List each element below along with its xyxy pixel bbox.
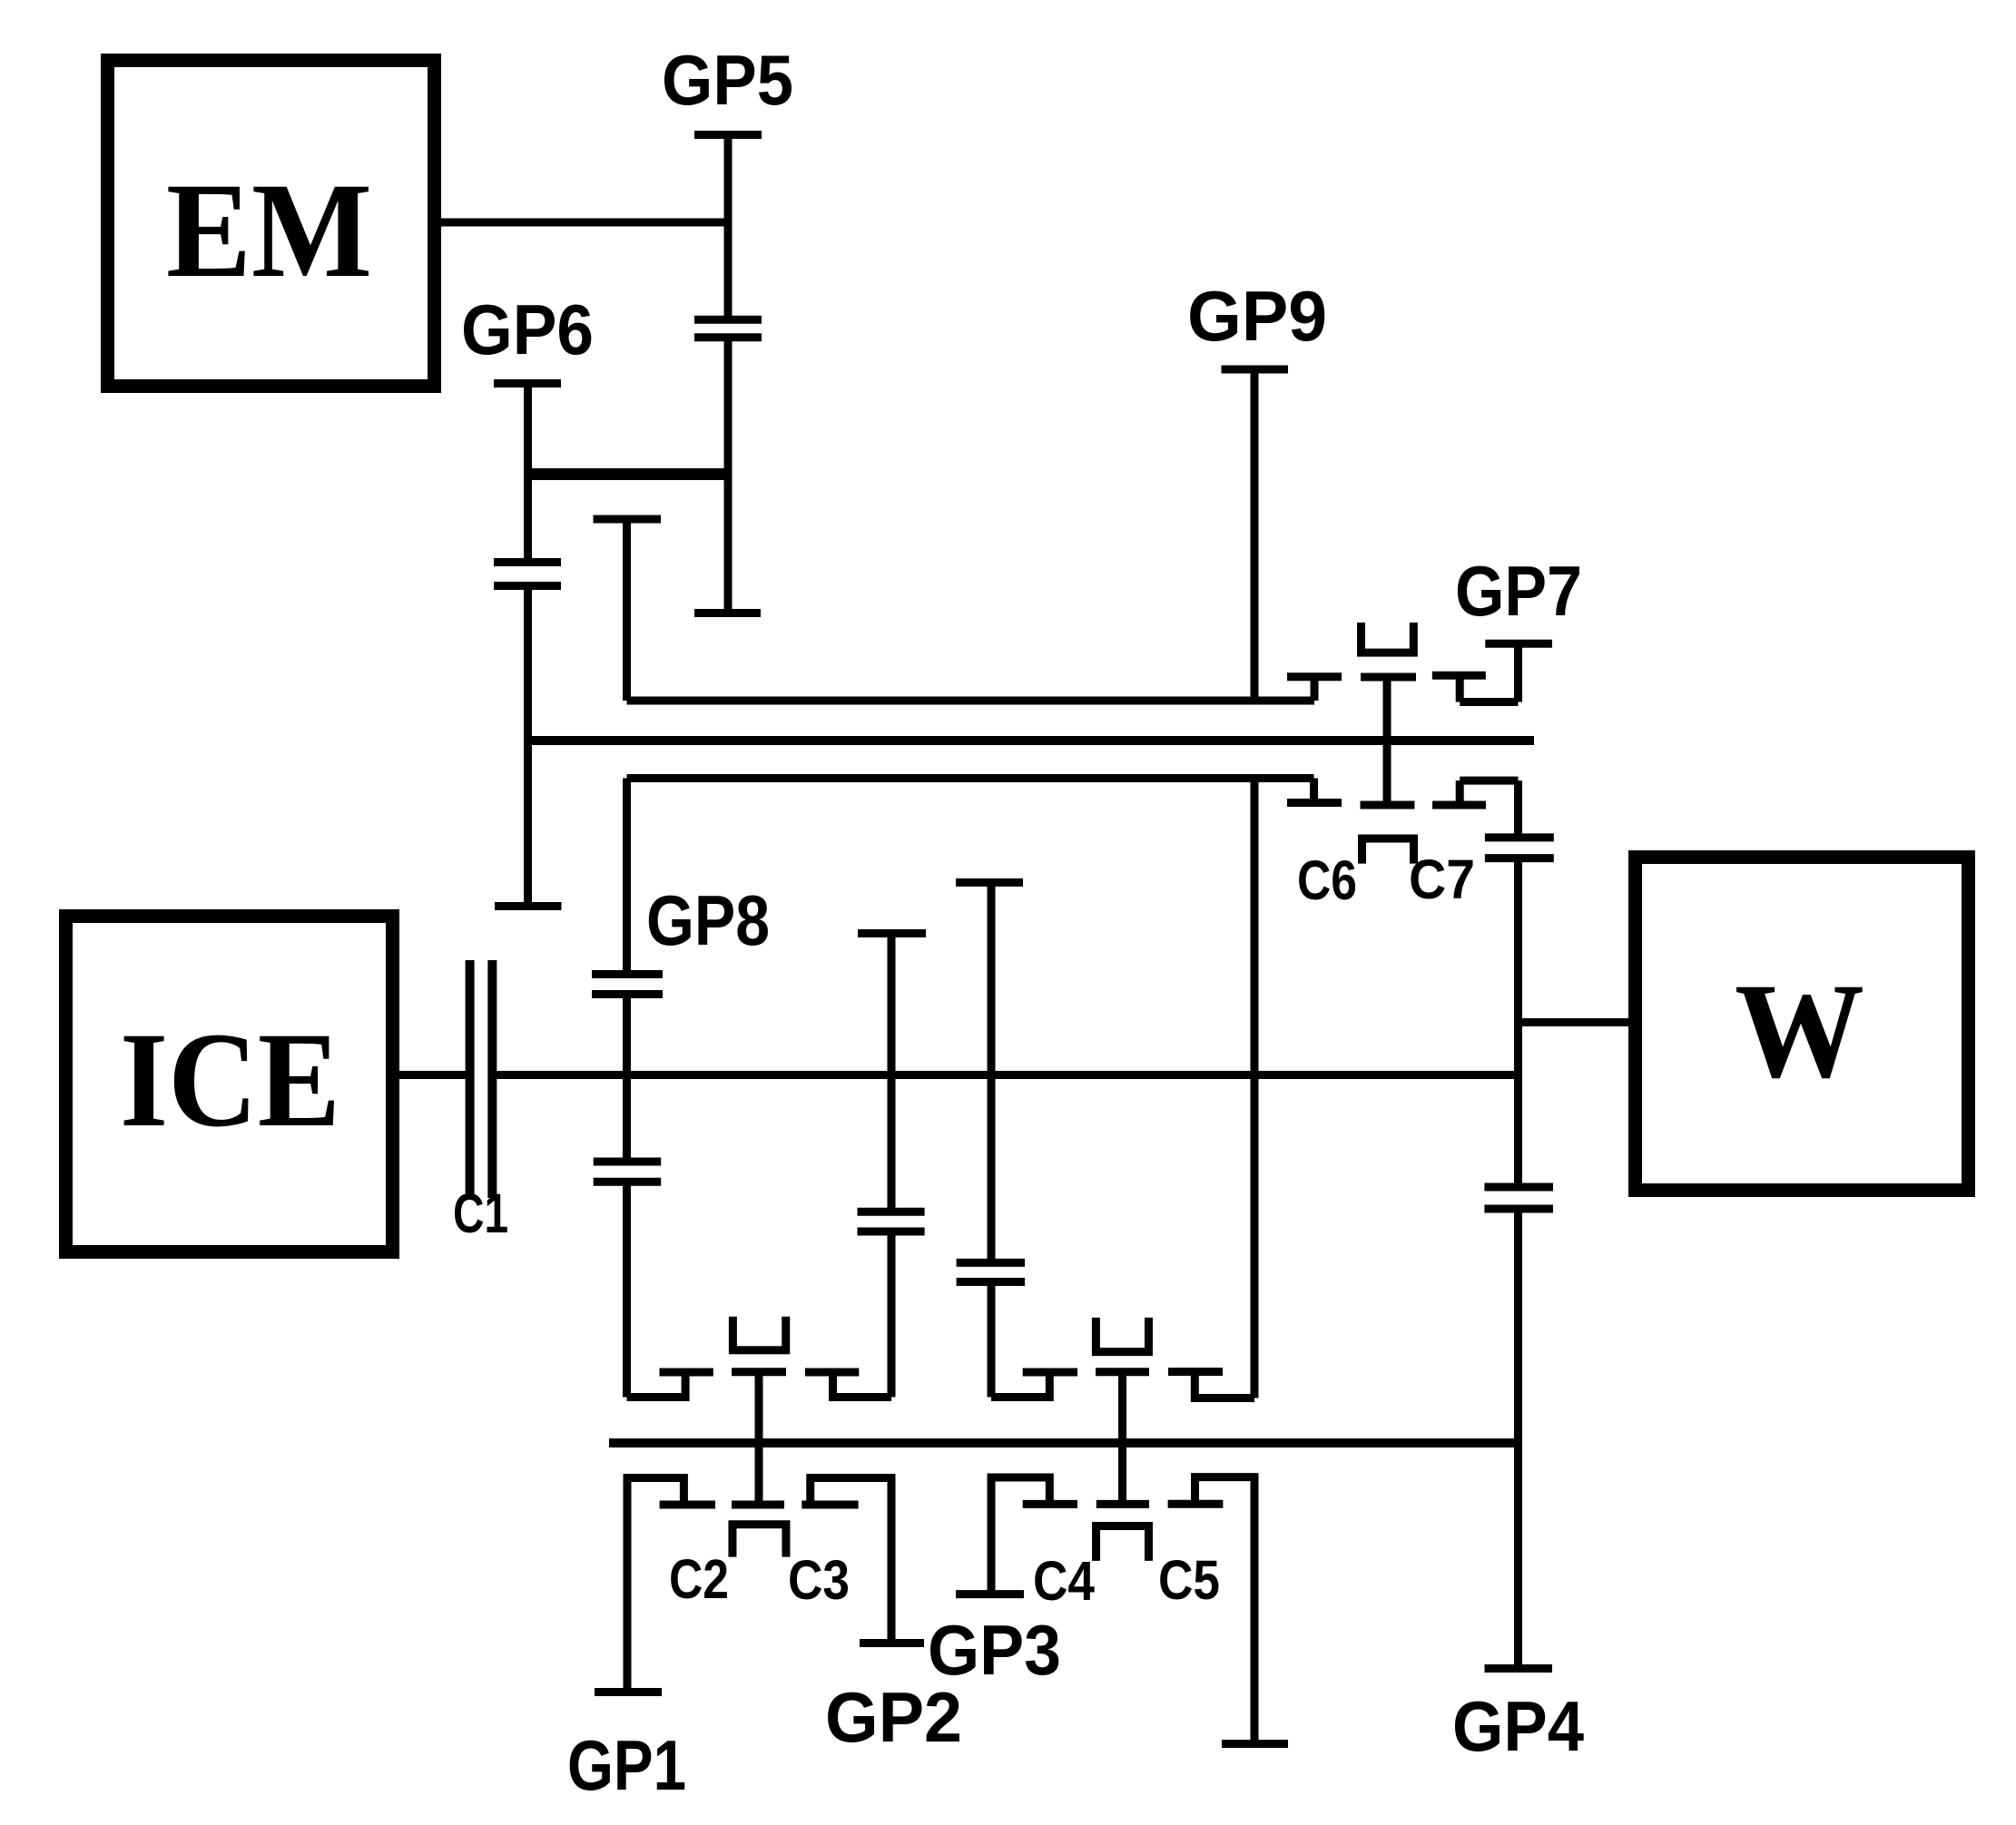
gear pair GP5 gear on EM shaft bbox=[694, 135, 762, 613]
EM box (electric motor) bbox=[108, 61, 435, 387]
svg-text:GP3: GP3 bbox=[928, 1610, 1061, 1690]
clutch C2 left claw (upper) bbox=[627, 1372, 713, 1398]
gear column x1092 with top cap and GP3 mesh bbox=[956, 882, 1025, 1397]
wire ICE output shaft left of clutch C1 bbox=[399, 1071, 466, 1079]
svg-text:C3: C3 bbox=[788, 1549, 850, 1611]
gear pair GP6 gear column bbox=[494, 384, 562, 907]
ICE box (internal combustion engine) bbox=[66, 917, 393, 1252]
svg-text:GP4: GP4 bbox=[1452, 1686, 1584, 1766]
clutch sleeve cup above C2/C3 (open top) bbox=[733, 1317, 785, 1350]
wire junction GP6-GP5 (thick link) bbox=[524, 468, 732, 480]
wire shaft line B (lower shaft to C7) bbox=[627, 774, 1314, 782]
gear pair GP8 column with two meshes bbox=[592, 779, 663, 1398]
svg-text:C6: C6 bbox=[1297, 849, 1357, 911]
clutch sleeve cup above C6 (open top) bbox=[1362, 623, 1414, 652]
svg-text:GP8: GP8 bbox=[646, 880, 770, 960]
svg-text:GP1: GP1 bbox=[567, 1725, 686, 1805]
gear pair GP9 gear column bbox=[1222, 369, 1289, 701]
gear pair GP7 gear and stub shaft bbox=[1432, 643, 1552, 702]
clutch C3 right claw (upper) bbox=[805, 1372, 891, 1398]
wire wheels column from C7 mesh down through GP4 bbox=[1514, 859, 1522, 1187]
svg-text:ICE: ICE bbox=[120, 1005, 340, 1155]
clutch C6/C7 central piece on main shaft bbox=[1361, 677, 1417, 805]
svg-text:GP5: GP5 bbox=[662, 40, 793, 120]
clutch C4 left claw (upper) bbox=[991, 1372, 1077, 1398]
svg-text:EM: EM bbox=[166, 155, 372, 306]
svg-text:GP9: GP9 bbox=[1187, 276, 1327, 356]
wire shaft line A (GP9/GP7 upper shaft) bbox=[627, 697, 1315, 705]
svg-text:C2: C2 bbox=[669, 1548, 729, 1610]
clutch sleeve cup below C2/C3 (open bottom) bbox=[733, 1525, 786, 1557]
svg-text:W: W bbox=[1735, 956, 1864, 1106]
clutch C5 right claw (upper) bbox=[1168, 1372, 1254, 1398]
wire W input line bbox=[1519, 1018, 1629, 1026]
clutch sleeve cup above C4/C5 (open top) bbox=[1096, 1318, 1148, 1352]
svg-text:C4: C4 bbox=[1033, 1550, 1095, 1612]
W box (wheels) bbox=[1636, 858, 1969, 1191]
clutch C4 left claw (lower) and GP3 shaft end bbox=[956, 1477, 1077, 1594]
clutch C3 right claw (lower) and GP2 shaft end bbox=[801, 1478, 924, 1643]
clutch C6 left claw at end of line A bbox=[1287, 677, 1342, 701]
svg-text:GP6: GP6 bbox=[461, 289, 594, 369]
clutch C2/C3 central piece on countershaft bbox=[732, 1372, 786, 1505]
wire ICE shaft right of C1 to GP4 column bbox=[497, 1071, 1519, 1079]
svg-text:GP7: GP7 bbox=[1455, 551, 1582, 631]
clutch C1 plates on ICE shaft bbox=[470, 960, 493, 1198]
svg-text:C7: C7 bbox=[1409, 849, 1475, 910]
gear pair GP4 mesh on wheels column bbox=[1484, 1187, 1553, 1669]
clutch C5 right claw (lower) and lower shaft end bbox=[1168, 1477, 1288, 1744]
gear column x982 with top cap and GP2 mesh bbox=[858, 934, 927, 1398]
gear pair GP1 column below countershaft bbox=[595, 1478, 715, 1693]
clutch C4/C5 central piece on countershaft bbox=[1096, 1372, 1149, 1505]
wire countershaft (thick) bbox=[609, 1438, 1519, 1447]
clutch C7 left claw at end of line B bbox=[1287, 779, 1342, 803]
stub shaft below main shaft to clutch C7 bbox=[1432, 780, 1519, 805]
clutch sleeve cup below (open bottom) bbox=[1362, 839, 1414, 864]
clutch sleeve cup below C4/C5 (open bottom) bbox=[1097, 1526, 1149, 1561]
wire EM output shaft to GP5 bbox=[441, 219, 728, 227]
svg-text:C5: C5 bbox=[1158, 1549, 1220, 1611]
gear pair mesh of C7 output to wheels column bbox=[1485, 780, 1554, 859]
wire column from line B down to clutch C5 bbox=[1251, 779, 1259, 1398]
svg-text:C1: C1 bbox=[453, 1182, 508, 1244]
gear on shaft line A at x690 (upper tick) bbox=[594, 519, 662, 701]
wire main input shaft (thick) bbox=[524, 736, 1534, 745]
